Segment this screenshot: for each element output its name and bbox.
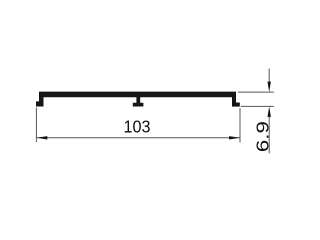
extension line bottom (6.9) <box>241 105 274 107</box>
arrow up <box>268 106 271 117</box>
dimension line 6.9 lower segment <box>268 114 270 153</box>
arrow down <box>268 82 271 93</box>
profile cross-section (black fill) <box>36 92 240 107</box>
dimension line 6.9 upper segment <box>268 69 270 85</box>
extension line left (103) <box>35 108 37 143</box>
arrow left <box>37 136 48 139</box>
svg-text:103: 103 <box>124 117 151 137</box>
svg-text:6.9: 6.9 <box>253 121 273 152</box>
extension line top (6.9) <box>238 91 274 93</box>
extension line right (103) <box>239 108 241 143</box>
dimension line 103 <box>37 137 240 139</box>
arrow right <box>229 136 240 139</box>
